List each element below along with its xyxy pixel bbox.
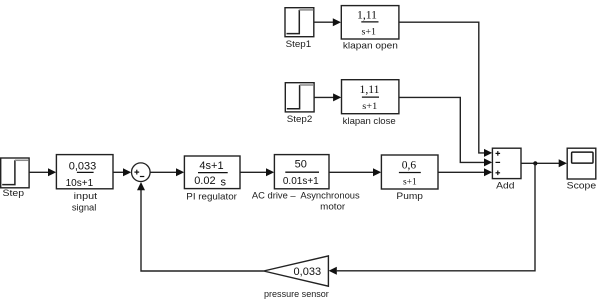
Scope block [567, 148, 596, 179]
svg-text:0.02: 0.02 [194, 175, 215, 187]
svg-text:pressure sensor: pressure sensor [264, 288, 329, 299]
wire Step1 to klapan open [314, 18, 341, 26]
step source Step1 [285, 8, 314, 37]
svg-text:1,11: 1,11 [357, 9, 377, 21]
wire sum to PI regulator [150, 168, 184, 176]
wire pressure sensor to sum [137, 182, 264, 271]
svg-text:Scope: Scope [567, 179, 597, 190]
junction node on Add output [533, 161, 537, 165]
svg-text:10s+1: 10s+1 [66, 178, 94, 189]
transfer function klapan open [341, 6, 399, 39]
svg-text:s+1: s+1 [362, 102, 377, 112]
svg-text:Add: Add [496, 180, 514, 191]
wire Step to input signal [29, 168, 56, 176]
wire PI regulator to AC drive [240, 168, 274, 176]
svg-text:s: s [221, 176, 227, 188]
svg-text:0.01s+1: 0.01s+1 [283, 176, 319, 187]
svg-text:0,6: 0,6 [402, 159, 417, 171]
transfer function klapan close [342, 80, 399, 114]
transfer function AC drive asynchronous motor [274, 155, 329, 189]
sum junction [132, 163, 151, 182]
svg-text:PI regulator: PI regulator [186, 190, 237, 201]
svg-text:1,11: 1,11 [360, 84, 380, 96]
svg-text:input: input [74, 190, 98, 201]
svg-text:s+1: s+1 [362, 28, 377, 38]
svg-text:signal: signal [72, 202, 97, 213]
step source Step2 [285, 83, 314, 112]
wire AC drive to Pump [329, 168, 381, 176]
svg-text:Step2: Step2 [287, 113, 313, 124]
wire klapan close to Add input 2 [399, 97, 492, 166]
wire Step2 to klapan close [314, 93, 341, 101]
transfer function Pump [381, 155, 438, 189]
svg-text:klapan close: klapan close [343, 115, 396, 126]
svg-text:0,033: 0,033 [69, 161, 97, 173]
svg-text:s+1: s+1 [403, 178, 417, 188]
wire input signal to sum [113, 168, 131, 176]
wire klapan open to Add input 1 [399, 22, 492, 157]
svg-text:4s+1: 4s+1 [199, 160, 223, 172]
gain pressure sensor [264, 256, 329, 286]
svg-text:motor: motor [320, 201, 345, 212]
wire Add output to pressure sensor [329, 163, 535, 274]
svg-text:Step1: Step1 [286, 38, 312, 49]
svg-text:0,033: 0,033 [294, 266, 322, 278]
svg-text:Pump: Pump [396, 190, 423, 201]
transfer function PI regulator [184, 156, 240, 189]
svg-text:klapan open: klapan open [343, 40, 398, 51]
wire Add to Scope [521, 159, 567, 167]
wire Pump to Add input 3 [438, 168, 492, 176]
svg-text:Step: Step [3, 187, 25, 198]
svg-text:50: 50 [295, 159, 307, 171]
step source Step [1, 158, 29, 188]
transfer function input signal [56, 155, 113, 189]
svg-text:AC drive – Asynchronous: AC drive – Asynchronous [252, 189, 360, 200]
Add block [492, 148, 521, 178]
